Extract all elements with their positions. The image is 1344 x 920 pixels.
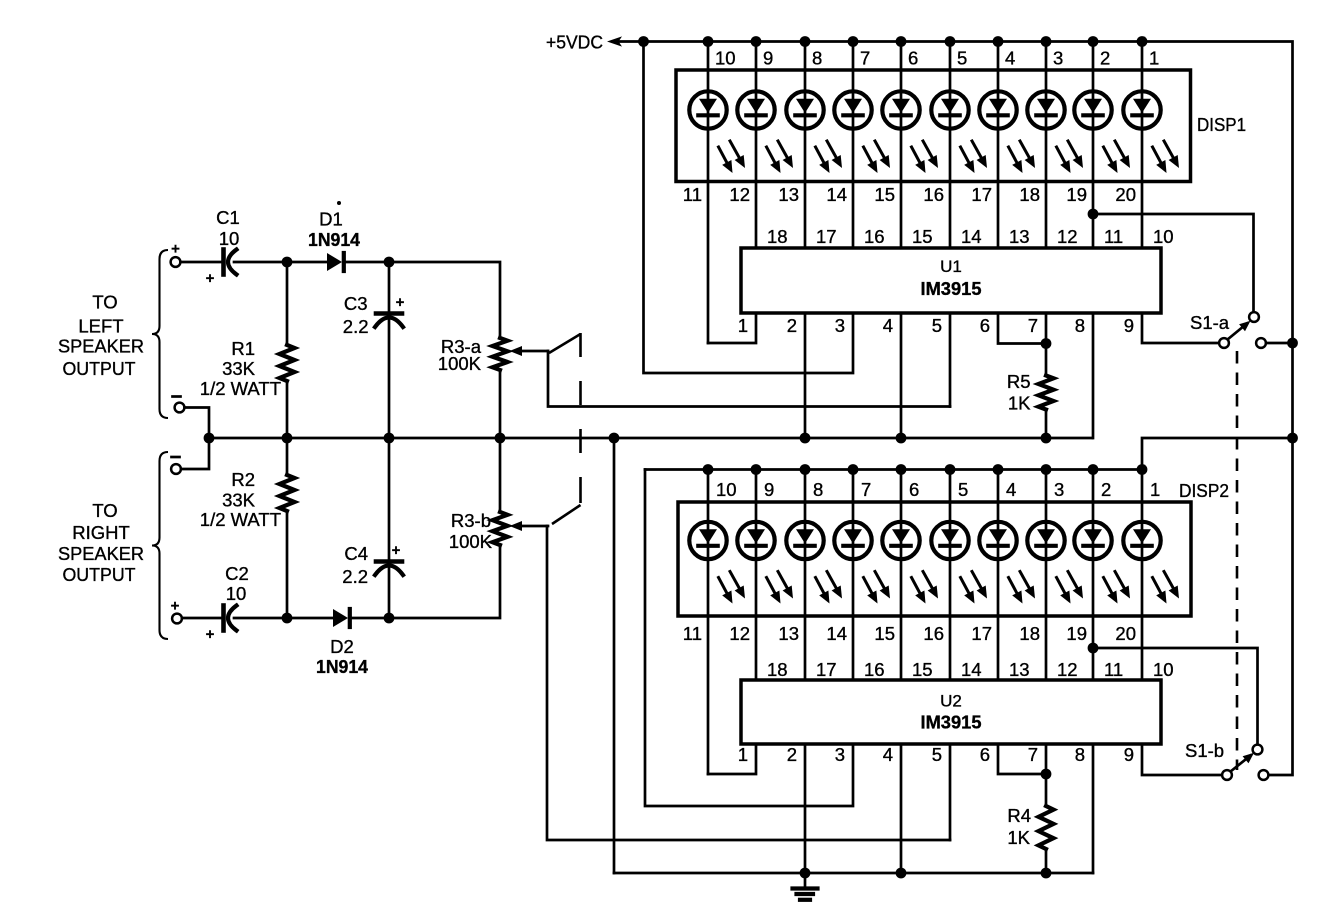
LED DISP2 10 arrows	[1153, 578, 1163, 596]
svg-text:15: 15	[874, 184, 895, 205]
wire DISP2 column pin 3	[1045, 470, 1048, 681]
svg-text:12: 12	[1057, 226, 1078, 247]
wire node D to R3-b bottom	[389, 545, 500, 618]
wire DISP1 column pin 5	[949, 42, 952, 249]
svg-text:IM3915: IM3915	[921, 278, 982, 299]
LED DISP1 1 arrows	[719, 147, 729, 165]
node ground/R4	[1041, 868, 1052, 879]
LED DISP1 2	[737, 91, 774, 128]
LED DISP1 9	[1074, 91, 1111, 128]
switch S1-b arm	[1231, 756, 1251, 772]
wire +5V rail	[619, 42, 1293, 776]
svg-text:R2: R2	[231, 469, 255, 490]
svg-text:4: 4	[1005, 48, 1015, 69]
svg-text:+: +	[392, 542, 401, 559]
svg-text:3: 3	[835, 744, 845, 765]
svg-text:10: 10	[1153, 226, 1174, 247]
svg-text:SPEAKER: SPEAKER	[58, 543, 144, 564]
svg-text:7: 7	[1028, 315, 1038, 336]
node +5V rail col 8	[1041, 36, 1052, 47]
svg-text:15: 15	[912, 659, 933, 680]
wire DISP2 anode rail	[645, 470, 1142, 681]
wire DISP2 column pin 8	[804, 470, 807, 681]
LED DISP2 6	[931, 522, 968, 559]
svg-text:2.2: 2.2	[343, 316, 369, 337]
wire mode feed to S1-b top	[1093, 648, 1258, 745]
op-amp U2 IM3915 box	[741, 680, 1161, 744]
LED DISP2 8	[1027, 522, 1064, 559]
wire U1 pin1 to DISP1 pin11	[708, 313, 756, 343]
wire DISP2 column pin 10	[707, 470, 710, 775]
svg-text:9: 9	[1124, 315, 1134, 336]
node DISP2 rail col 1	[703, 464, 714, 475]
wire U2 pin6 to pin7	[998, 744, 1046, 774]
LED DISP1 10 arrows	[1153, 147, 1163, 165]
svg-text:11: 11	[1104, 226, 1123, 247]
brace right speaker	[152, 452, 168, 639]
LED DISP1 8	[1027, 91, 1064, 128]
svg-text:4: 4	[883, 315, 893, 336]
svg-text:18: 18	[1019, 184, 1040, 205]
wire +5V to DISP2 rail	[1142, 438, 1293, 470]
svg-text:14: 14	[826, 184, 847, 205]
svg-text:20: 20	[1115, 623, 1136, 644]
wire DISP2 column pin 9	[755, 470, 758, 681]
node +5V rail col 10	[1137, 36, 1148, 47]
svg-text:19: 19	[1066, 184, 1087, 205]
node B (D1/C3)	[384, 257, 395, 268]
LED DISP1 8 arrows	[1057, 147, 1067, 165]
node DISP2 rail col 5	[896, 464, 907, 475]
node D (D2/C4)	[384, 613, 395, 624]
svg-text:IM3915: IM3915	[921, 712, 982, 733]
node ground/U2 pin4	[896, 868, 907, 879]
LED DISP2 9	[1074, 522, 1111, 559]
LED DISP1 3	[786, 91, 823, 128]
LED DISP1 6 arrows	[961, 147, 971, 165]
wire DISP2 column pin 4	[997, 470, 1000, 681]
svg-text:LEFT: LEFT	[78, 316, 123, 337]
LED DISP2 5 arrows	[912, 578, 922, 596]
wire U2 pin8 to ground bus	[1092, 744, 1095, 873]
svg-text:14: 14	[961, 659, 982, 680]
switch S1-a throw right contact	[1256, 338, 1266, 348]
svg-text:C4: C4	[344, 543, 368, 564]
svg-text:1: 1	[738, 315, 748, 336]
node DISP2 rail col 7	[993, 464, 1004, 475]
LED DISP1 3 arrows	[816, 147, 826, 165]
svg-text:8: 8	[1075, 744, 1085, 765]
wire DISP1 column pin 6	[900, 42, 903, 249]
wire L+ to C1	[181, 261, 223, 264]
wire DISP2 column pin 5	[949, 470, 952, 681]
svg-text:R1: R1	[231, 338, 255, 359]
switch S1-a arm	[1228, 324, 1248, 340]
svg-text:1: 1	[1150, 479, 1160, 500]
wire node A to D1	[287, 261, 327, 264]
svg-text:6: 6	[980, 315, 990, 336]
wire mode feed to S1-a top	[1093, 214, 1254, 313]
wire D2 to node D	[352, 617, 389, 620]
wire DISP2 column pin 6	[900, 470, 903, 681]
LED DISP2 9 arrows	[1104, 578, 1114, 596]
svg-text:10: 10	[226, 583, 247, 604]
svg-text:11: 11	[683, 184, 702, 205]
node +5V rail col 3	[800, 36, 811, 47]
node bus/C3/C4	[384, 433, 395, 444]
svg-text:1K: 1K	[1008, 393, 1031, 414]
wire R3-a wiper to U1 pin5	[548, 351, 950, 407]
svg-text:2: 2	[787, 744, 797, 765]
wire U1 pin5 stub	[949, 313, 952, 407]
svg-text:D2: D2	[330, 636, 354, 657]
wire S1-a throw to +5V line	[1266, 342, 1293, 345]
LED DISP2 7	[979, 522, 1016, 559]
LED DISP1 9 arrows	[1104, 147, 1114, 165]
svg-text:9: 9	[764, 479, 774, 500]
svg-text:5: 5	[957, 48, 967, 69]
wire U2 pin5 stub	[949, 744, 952, 840]
LED DISP1 4 arrows	[864, 147, 874, 165]
svg-text:9: 9	[1124, 744, 1134, 765]
svg-text:14: 14	[961, 226, 982, 247]
brace left speaker	[152, 250, 168, 418]
svg-text:100K: 100K	[438, 353, 482, 374]
svg-text:R4: R4	[1007, 805, 1031, 826]
node DISP2 rail col 4	[848, 464, 859, 475]
svg-text:16: 16	[923, 184, 944, 205]
node +5V rail col 4	[848, 36, 859, 47]
DISP2 box	[678, 502, 1191, 616]
svg-text:OUTPUT: OUTPUT	[63, 358, 136, 379]
svg-text:U1: U1	[940, 257, 962, 276]
svg-text:7: 7	[1028, 744, 1038, 765]
wire U1 pin8 to bus	[1092, 313, 1095, 438]
svg-text:18: 18	[767, 226, 788, 247]
switch S1-a pole contact	[1219, 338, 1229, 348]
svg-text:10: 10	[716, 479, 737, 500]
svg-text:C1: C1	[216, 207, 240, 228]
node +5V line / S1-a	[1287, 338, 1298, 349]
svg-text:1K: 1K	[1007, 827, 1030, 848]
LED DISP2 6 arrows	[961, 578, 971, 596]
svg-text:D1: D1	[319, 209, 343, 230]
wire common bus	[209, 437, 1092, 440]
svg-text:14: 14	[826, 623, 847, 644]
svg-text:TO: TO	[92, 500, 117, 521]
svg-text:5: 5	[958, 479, 968, 500]
svg-text:8: 8	[1075, 315, 1085, 336]
node A (C1/R1/D1)	[282, 257, 293, 268]
LED DISP2 7 arrows	[1009, 578, 1019, 596]
wire U1 pin3 to +5V	[644, 42, 854, 374]
wire U2 pin1 to DISP2 pin11	[708, 744, 756, 774]
svg-text:18: 18	[1019, 623, 1040, 644]
svg-text:R3-b: R3-b	[451, 510, 491, 531]
node +5V/pin3 feed	[638, 36, 649, 47]
svg-text:13: 13	[1009, 659, 1030, 680]
wire DISP1 column pin 4	[997, 42, 1000, 249]
node +5V rail col 5	[896, 36, 907, 47]
node U2 pin7/R4	[1041, 769, 1052, 780]
LED DISP2 3	[786, 522, 823, 559]
wire U2 pin4 to ground bus	[900, 744, 903, 873]
node bus/U1 pin4	[896, 433, 907, 444]
LED DISP2 4	[834, 522, 871, 559]
ground symbol	[804, 873, 807, 887]
svg-text:8: 8	[812, 48, 822, 69]
wire C2 to node C	[234, 617, 287, 620]
node +5V rail col 9	[1088, 36, 1099, 47]
svg-text:13: 13	[778, 623, 799, 644]
dashed gang link S1-a/S1-b	[1236, 351, 1239, 770]
LED DISP1 2 arrows	[767, 147, 777, 165]
svg-text:S1-b: S1-b	[1185, 740, 1224, 761]
svg-text:16: 16	[864, 659, 885, 680]
svg-text:SPEAKER: SPEAKER	[58, 336, 144, 357]
svg-text:16: 16	[923, 623, 944, 644]
node C (C2/R2/D2)	[282, 613, 293, 624]
svg-text:16: 16	[864, 226, 885, 247]
svg-text:12: 12	[1057, 659, 1078, 680]
wire U1 pin6 to pin7	[998, 313, 1046, 344]
svg-text:3: 3	[1054, 479, 1064, 500]
wire R3-b wiper to U2 pin5	[547, 526, 950, 840]
svg-text:6: 6	[909, 479, 919, 500]
svg-text:1N914: 1N914	[308, 229, 361, 250]
svg-text:10: 10	[715, 48, 736, 69]
svg-text:3: 3	[1053, 48, 1063, 69]
node DISP2 rail col 8	[1041, 464, 1052, 475]
svg-text:5: 5	[932, 744, 942, 765]
node DISP2 rail col 9	[1088, 464, 1099, 475]
node +5V rail col 6	[945, 36, 956, 47]
svg-text:5: 5	[932, 315, 942, 336]
node bus to ground column	[609, 433, 620, 444]
node DISP2 rail col 3	[800, 464, 811, 475]
svg-text:OUTPUT: OUTPUT	[63, 564, 136, 585]
switch S1-b pole contact	[1222, 770, 1232, 780]
node R3 junction on bus	[495, 433, 506, 444]
svg-text:TO: TO	[92, 292, 117, 313]
svg-text:R5: R5	[1007, 371, 1031, 392]
svg-text:RIGHT: RIGHT	[72, 522, 130, 543]
wire DISP1 column pin 10	[707, 42, 710, 344]
svg-text:10: 10	[219, 228, 240, 249]
wire node B to R3-a top	[389, 262, 500, 338]
LED DISP1 4	[834, 91, 871, 128]
LED DISP1 1	[689, 91, 726, 128]
svg-text:2: 2	[1100, 48, 1110, 69]
svg-text:33K: 33K	[222, 490, 256, 511]
svg-text:1/2 WATT: 1/2 WATT	[200, 509, 281, 530]
switch S1-b throw up contact	[1253, 745, 1263, 755]
wire DISP1 column pin 2	[1092, 42, 1095, 249]
svg-text:13: 13	[778, 184, 799, 205]
svg-text:1/2 WATT: 1/2 WATT	[200, 378, 281, 399]
dashed gang link R3-a/R3-b	[549, 334, 581, 353]
LED DISP1 5	[882, 91, 919, 128]
node bus/R5	[1041, 433, 1052, 444]
svg-text:11: 11	[683, 623, 702, 644]
wire U1 pin4 to bus	[900, 313, 903, 438]
node U1 pin7/R5	[1041, 338, 1052, 349]
svg-text:S1-a: S1-a	[1190, 312, 1230, 333]
svg-text:12: 12	[729, 623, 750, 644]
svg-text:DISP2: DISP2	[1179, 480, 1229, 501]
terminal R-	[172, 456, 180, 459]
svg-text:+: +	[171, 241, 180, 258]
node DISP2 pin19 column / mode feed	[1088, 643, 1099, 654]
svg-text:19: 19	[1066, 623, 1087, 644]
svg-text:6: 6	[980, 744, 990, 765]
svg-text:15: 15	[912, 226, 933, 247]
svg-text:8: 8	[813, 479, 823, 500]
LED DISP2 2 arrows	[767, 578, 777, 596]
svg-text:+: +	[206, 626, 215, 643]
node bus/U1 pin2	[800, 433, 811, 444]
svg-text:+: +	[206, 270, 215, 287]
LED DISP1 7	[979, 91, 1016, 128]
+5VDC arrow	[607, 36, 622, 46]
svg-text:17: 17	[971, 623, 992, 644]
svg-text:+: +	[396, 294, 405, 311]
wire U1 pin7 stub	[1045, 313, 1048, 376]
svg-text:1: 1	[1149, 48, 1159, 69]
svg-text:4: 4	[883, 744, 893, 765]
svg-text:+: +	[171, 598, 180, 615]
svg-text:DISP1: DISP1	[1197, 114, 1246, 135]
svg-text:10: 10	[1153, 659, 1174, 680]
LED DISP1 5 arrows	[912, 147, 922, 165]
svg-text:C3: C3	[344, 293, 368, 314]
terminal L-	[173, 395, 181, 398]
svg-text:17: 17	[816, 659, 837, 680]
svg-text:2.2: 2.2	[342, 566, 368, 587]
switch S1-b throw right contact	[1259, 770, 1269, 780]
wire U1 pin9 to S1-a pole	[1142, 313, 1219, 343]
svg-text:1: 1	[738, 744, 748, 765]
svg-text:7: 7	[861, 479, 871, 500]
svg-text:12: 12	[729, 184, 750, 205]
LED DISP2 5	[882, 522, 919, 559]
node +5V line / DISP2 feed	[1287, 433, 1298, 444]
LED DISP2 10	[1123, 522, 1160, 559]
svg-text:20: 20	[1115, 184, 1136, 205]
LED DISP1 10	[1123, 91, 1160, 128]
svg-text:100K: 100K	[449, 531, 493, 552]
svg-text:+5VDC: +5VDC	[546, 32, 603, 53]
wire ground bus	[614, 872, 1093, 875]
wire DISP1 column pin 1	[1141, 42, 1144, 249]
DISP1 box	[676, 70, 1191, 182]
switch S1-a throw up contact	[1249, 312, 1259, 322]
wire U2 pin7 stub	[1045, 744, 1048, 806]
LED DISP2 2	[737, 522, 774, 559]
LED DISP1 6	[931, 91, 968, 128]
svg-text:2: 2	[787, 315, 797, 336]
node +5V rail col 1	[703, 36, 714, 47]
node bus/R1	[282, 433, 293, 444]
wire DISP1 column pin 7	[852, 42, 855, 249]
node DISP2 rail col 6	[945, 464, 956, 475]
LED DISP1 7 arrows	[1009, 147, 1019, 165]
svg-text:9: 9	[763, 48, 773, 69]
wire DISP1 column pin 9	[755, 42, 758, 249]
node +5V rail col 7	[993, 36, 1004, 47]
node DISP2 rail col 2	[751, 464, 762, 475]
svg-text:C2: C2	[225, 563, 249, 584]
wire R+ to C2	[182, 617, 222, 620]
svg-text:17: 17	[816, 226, 837, 247]
svg-text:2: 2	[1101, 479, 1111, 500]
wire D1 to node B	[346, 261, 389, 264]
svg-text:6: 6	[908, 48, 918, 69]
wire DISP1 column pin 3	[1045, 42, 1048, 249]
svg-text:33K: 33K	[222, 358, 256, 379]
svg-text:11: 11	[1104, 659, 1123, 680]
wire L- to bus	[185, 408, 210, 439]
node ground/U2 pin2	[800, 868, 811, 879]
wire U2 pin9 to S1-b pole	[1142, 744, 1222, 775]
svg-text:18: 18	[767, 659, 788, 680]
node DISP1 pin19 column / mode feed	[1088, 209, 1099, 220]
wire DISP2 column pin 7	[852, 470, 855, 681]
svg-text:U2: U2	[940, 692, 962, 711]
LED DISP2 1	[689, 522, 726, 559]
svg-text:1N914: 1N914	[316, 656, 369, 677]
wire U2 pin3 to DISP2 rail	[645, 470, 853, 807]
wire U1 pin2 to bus	[804, 313, 807, 438]
svg-text:17: 17	[971, 184, 992, 205]
node +5V rail col 2	[751, 36, 762, 47]
LED DISP2 8 arrows	[1057, 578, 1067, 596]
svg-text:7: 7	[860, 48, 870, 69]
node bus left	[204, 433, 215, 444]
wire R- to bus	[181, 438, 209, 469]
LED DISP2 3 arrows	[816, 578, 826, 596]
op-amp U1 IM3915 box	[741, 248, 1161, 313]
wire DISP1 column pin 8	[804, 42, 807, 249]
wire C1 to node A	[234, 261, 287, 264]
svg-text:13: 13	[1009, 226, 1030, 247]
LED DISP2 1 arrows	[719, 578, 729, 596]
LED DISP2 4 arrows	[864, 578, 874, 596]
node DISP2 rail col 10	[1137, 464, 1148, 475]
wire DISP2 column pin 2	[1092, 470, 1095, 681]
svg-text:4: 4	[1006, 479, 1016, 500]
wire bus down to ground bus	[613, 438, 616, 873]
wire U2 pin2 to ground bus	[804, 744, 807, 873]
wire node C to D2	[287, 617, 333, 620]
svg-text:15: 15	[874, 623, 895, 644]
svg-text:3: 3	[835, 315, 845, 336]
